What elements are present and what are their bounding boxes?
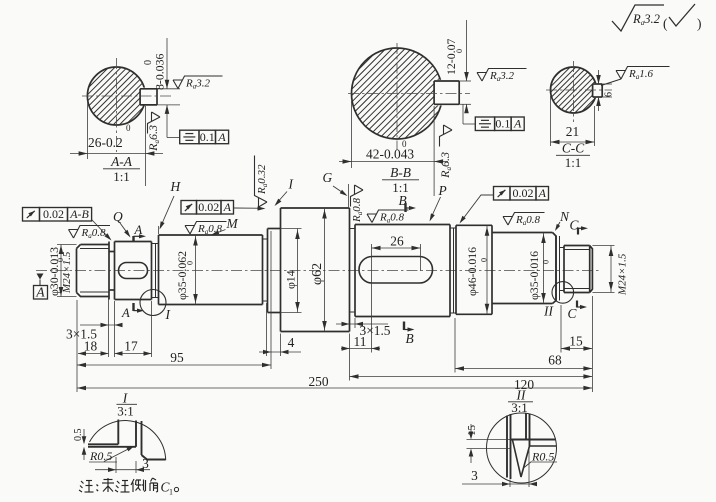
- svg-text:68: 68: [548, 353, 562, 368]
- svg-text:Ra0.8: Ra0.8: [81, 227, 106, 240]
- dimension 26 keyway length: [372, 234, 421, 353]
- shaft keyway section right outline: [355, 225, 450, 317]
- svg-text:0: 0: [480, 258, 489, 262]
- detail I dimension 3: [95, 456, 150, 473]
- runout tolerance frame 0.02 A (right): [460, 186, 549, 223]
- detail II thread relief groove profile: [507, 414, 556, 480]
- relief groove 3x1.5 right of disk: [350, 225, 356, 317]
- detail I dimension 0.5: [73, 429, 86, 461]
- dimension 3x1.5 right groove: [336, 322, 391, 338]
- label C section mark upper: [570, 218, 589, 235]
- svg-text:G: G: [323, 170, 333, 185]
- svg-text:Ra0.8: Ra0.8: [351, 198, 364, 223]
- dimension 8 -0.036 keyway width A-A: [143, 38, 180, 138]
- dimension 3x1.5 left groove: [66, 323, 123, 342]
- section B-B centerlines: [348, 43, 470, 150]
- roughness Ra1.6 C-C: [601, 67, 670, 86]
- runout tolerance frame 0.02 A-B: [23, 207, 112, 240]
- section C-C centerlines: [546, 61, 612, 122]
- svg-text:Ra3.2: Ra3.2: [632, 12, 661, 27]
- svg-text:Ra1.6: Ra1.6: [628, 68, 653, 81]
- svg-text:Ra3.2: Ra3.2: [185, 77, 210, 90]
- dimension 26 -0.2 (A-A): [70, 101, 163, 186]
- label B section mark upper: [399, 193, 417, 212]
- phi62 disk outline: [281, 208, 350, 332]
- dimension 4 collar width: [259, 335, 301, 354]
- detail I boundary arc: [90, 421, 166, 461]
- svg-text:3: 3: [471, 468, 478, 483]
- roughness Ra3.2 A-A keyway: [173, 76, 223, 90]
- svg-text:Ra0.8: Ra0.8: [515, 214, 540, 227]
- svg-text:M24×1.5: M24×1.5: [61, 251, 73, 294]
- svg-text:0.02: 0.02: [198, 200, 219, 214]
- roughness Ra6.3 on A-A extension line: [146, 112, 161, 152]
- dimension 18: [78, 339, 109, 356]
- svg-text:φ35-0.016: φ35-0.016: [527, 251, 541, 300]
- svg-text:Ra6.3: Ra6.3: [146, 125, 161, 152]
- svg-text:Ra6.3: Ra6.3: [438, 152, 453, 179]
- label G with leader: [323, 170, 349, 207]
- svg-text:250: 250: [308, 374, 328, 389]
- label A section mark lower: [121, 303, 144, 320]
- dimension 21 (C-C): [551, 96, 595, 146]
- roughness Ra0.8 phi46 top: [503, 213, 545, 227]
- detail I groove profile: [88, 420, 166, 460]
- svg-text:0.02: 0.02: [513, 186, 534, 200]
- detail circle II: [552, 282, 574, 304]
- svg-text:A: A: [35, 285, 45, 300]
- section B-B hatched circle: [254, 39, 549, 142]
- dimension phi46-0.016: [465, 225, 489, 314]
- dimension 6 keyway width C-C: [596, 70, 614, 111]
- section A-A hatched circle: [23, 58, 217, 128]
- svg-text:I: I: [288, 177, 294, 192]
- symmetry tolerance frame 0.1 A (A-A): [167, 130, 229, 144]
- svg-text:12-0.07: 12-0.07: [444, 39, 458, 75]
- label A section mark upper: [134, 223, 147, 242]
- svg-text:A-A: A-A: [110, 154, 133, 169]
- dimension phi35-0.016: [527, 233, 551, 304]
- dimension 68: [455, 353, 592, 371]
- relief groove at right thread: [560, 236, 565, 301]
- svg-text:15: 15: [569, 334, 583, 349]
- svg-text:0.5: 0.5: [73, 429, 84, 442]
- svg-text:0: 0: [186, 261, 195, 265]
- section B-B keyway slot: [434, 80, 460, 106]
- section A-A centerlines: [82, 58, 172, 152]
- relief groove before phi46: [450, 225, 456, 314]
- extension lines bottom: [77, 231, 592, 392]
- svg-text:18: 18: [84, 339, 98, 354]
- svg-text:0.02: 0.02: [43, 207, 64, 221]
- svg-text:C: C: [568, 306, 578, 321]
- svg-text:B-B: B-B: [390, 165, 411, 180]
- dimension 15 right: [561, 334, 592, 351]
- shaft centerline: [36, 270, 601, 272]
- svg-text:0: 0: [126, 123, 131, 133]
- svg-text:11: 11: [354, 334, 367, 349]
- svg-text:0.1: 0.1: [200, 130, 215, 144]
- svg-text:0: 0: [455, 49, 464, 53]
- svg-text:II: II: [543, 304, 553, 319]
- svg-text:0.1: 0.1: [495, 117, 510, 131]
- svg-text:26: 26: [88, 135, 102, 150]
- svg-text:6: 6: [604, 92, 615, 97]
- svg-text:1: 1: [169, 488, 173, 497]
- svg-text:φ30-0.013: φ30-0.013: [47, 247, 61, 296]
- detail II R0.5 leader: [524, 450, 558, 469]
- dimension phi62 disk: [310, 208, 327, 332]
- svg-text:42: 42: [366, 147, 379, 162]
- dimension 120: [350, 374, 593, 392]
- phi44 collar outline: [268, 229, 281, 313]
- svg-text:φ14: φ14: [284, 270, 298, 289]
- svg-text:17: 17: [124, 339, 138, 354]
- svg-text:8-0.036: 8-0.036: [153, 54, 167, 90]
- svg-text:15: 15: [466, 425, 478, 437]
- svg-text:P: P: [438, 183, 447, 198]
- general roughness note Ra3.2 with checkmark: [612, 4, 701, 31]
- svg-text:A: A: [538, 186, 547, 200]
- relief groove before collar: [263, 229, 268, 313]
- dimension 17: [115, 339, 152, 356]
- dimension 12 -0.07 keyway width B-B: [444, 20, 471, 113]
- detail II label: [508, 388, 533, 416]
- note text: unnoted chamfers C1: [79, 478, 179, 497]
- svg-text:21: 21: [566, 124, 579, 139]
- detail II dimension 1.5: [466, 424, 511, 463]
- shaft keyway section phi30 outline: [115, 242, 152, 300]
- roughness Ra0.8 phi35 section with M label: [185, 216, 239, 236]
- svg-text:3: 3: [142, 456, 149, 471]
- svg-text:M24×1.5: M24×1.5: [617, 253, 629, 296]
- label A-A 1:1: [103, 154, 140, 184]
- roughness Ra0.8 left thread: [69, 226, 111, 240]
- shaft left thread section M24x1.5 outline: [77, 245, 110, 297]
- roughness Ra0.32 rotated at groove: [255, 156, 269, 208]
- detail I label: [117, 391, 138, 419]
- svg-text:26: 26: [390, 234, 404, 249]
- dimension 42 -0.043 (B-B): [339, 101, 448, 196]
- svg-text:I: I: [165, 307, 171, 322]
- keyway slot oval right: [359, 257, 433, 284]
- label P with leader: [430, 183, 447, 222]
- right thread section M24x1.5 outline: [564, 246, 592, 293]
- keyway slot oval left: [119, 263, 148, 279]
- svg-text:(: (: [663, 16, 668, 31]
- svg-text:Ra0.8: Ra0.8: [379, 211, 404, 224]
- svg-text:R0.5: R0.5: [89, 449, 112, 463]
- detail I R0.5 leader: [89, 446, 135, 463]
- svg-text:C-C: C-C: [562, 141, 585, 156]
- svg-text:H: H: [170, 179, 182, 194]
- roughness Ra0.8 right keyway top: [367, 210, 409, 224]
- section C-C hatched circle: [499, 58, 658, 116]
- label I upper with leader: [275, 177, 294, 207]
- datum A symbol: [34, 274, 48, 300]
- label Q with leader: [113, 209, 131, 238]
- svg-text:0: 0: [542, 260, 551, 264]
- svg-text:1:1: 1:1: [565, 155, 582, 170]
- svg-text:Ra3.2: Ra3.2: [489, 70, 514, 83]
- dimension 250: [77, 374, 592, 390]
- svg-text:φ35-0.062: φ35-0.062: [175, 251, 189, 300]
- label C-C 1:1: [556, 141, 590, 171]
- svg-text:4: 4: [288, 335, 295, 350]
- dimension 95: [77, 350, 271, 367]
- svg-text:1:1: 1:1: [113, 169, 130, 184]
- section A-A keyway slot: [140, 88, 158, 106]
- svg-text:R0.5: R0.5: [531, 450, 554, 464]
- detail II dimension 3: [462, 448, 537, 487]
- svg-text:): ): [697, 16, 701, 31]
- label H with leader: [159, 179, 182, 234]
- svg-text:-0.2: -0.2: [102, 135, 123, 150]
- shaft phi46-0.016 section outline: [456, 225, 492, 314]
- svg-text:Q: Q: [113, 209, 123, 224]
- svg-text:φ62: φ62: [310, 263, 325, 285]
- runout tolerance frame 0.02 A (phi35 left): [181, 200, 266, 214]
- svg-text:Ra0.32: Ra0.32: [256, 164, 269, 195]
- roughness Ra0.8 rotated at right keyway section: [351, 185, 365, 223]
- relief groove at phi30/phi35 step: [152, 242, 159, 300]
- svg-text:0: 0: [402, 139, 407, 149]
- symmetry tolerance frame 0.1 A (B-B): [463, 104, 524, 130]
- left relief groove 3x1.5: [109, 242, 115, 300]
- svg-text:A: A: [513, 117, 522, 131]
- svg-text:3:1: 3:1: [117, 404, 134, 419]
- label N with leader: [555, 209, 570, 231]
- svg-text:-0.043: -0.043: [380, 147, 415, 162]
- svg-text:φ46-0.016: φ46-0.016: [465, 247, 479, 296]
- roughness Ra6.3 on B-B extension line: [438, 125, 453, 179]
- detail II boundary circle: [487, 413, 557, 483]
- svg-text:A: A: [223, 200, 232, 214]
- svg-text:A-B: A-B: [69, 207, 89, 221]
- svg-text:A: A: [217, 130, 226, 144]
- label B section mark lower: [404, 322, 415, 347]
- svg-text:A: A: [121, 306, 130, 320]
- label B-B 1:1: [382, 165, 419, 195]
- label C section mark lower: [568, 301, 588, 322]
- dimension phi30-0.013 left end: [47, 245, 77, 297]
- detail circle I: [140, 290, 166, 316]
- section C-C keyway slot: [593, 83, 603, 98]
- shaft phi35-0.062 section outline: [159, 235, 263, 305]
- dimension M24x1.5 right: [592, 246, 628, 297]
- svg-text:M: M: [226, 216, 239, 231]
- dimension phi35-0.062: [175, 235, 198, 305]
- svg-text:N: N: [559, 209, 570, 224]
- svg-text:95: 95: [170, 350, 184, 365]
- dimension phi44 collar: [281, 229, 302, 313]
- dimension 11: [341, 334, 380, 351]
- roughness Ra3.2 B-B keyway: [477, 69, 527, 83]
- svg-text:B: B: [406, 331, 414, 346]
- shaft phi35-0.016 section outline: [492, 233, 556, 304]
